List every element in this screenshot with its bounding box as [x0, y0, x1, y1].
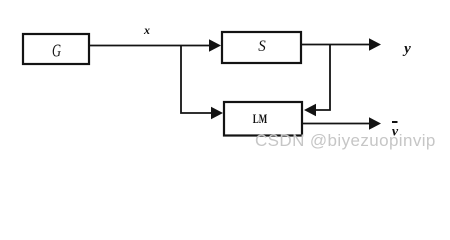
wire LM to v [303, 123, 370, 125]
svg-text:y: y [402, 41, 411, 57]
arrowhead y output [369, 38, 381, 51]
arrowhead v output [369, 117, 381, 130]
arrowhead into S [209, 39, 221, 52]
arrowhead into LM right [304, 104, 316, 117]
wire S to y [301, 44, 370, 46]
svg-text:CSDN @biyezuopinvip: CSDN @biyezuopinvip [255, 131, 436, 150]
wire G to S [90, 45, 210, 47]
label v bar [392, 121, 398, 123]
wire branch down from x line [181, 46, 211, 114]
block LM [224, 102, 302, 136]
arrowhead into LM left [211, 107, 223, 120]
wire branch down from y line [316, 45, 330, 111]
block S [222, 32, 301, 63]
svg-text:G: G [52, 41, 61, 61]
block G [23, 34, 89, 64]
svg-text:S: S [258, 38, 266, 55]
svg-text:LM: LM [253, 111, 268, 126]
svg-text:x: x [143, 23, 150, 37]
